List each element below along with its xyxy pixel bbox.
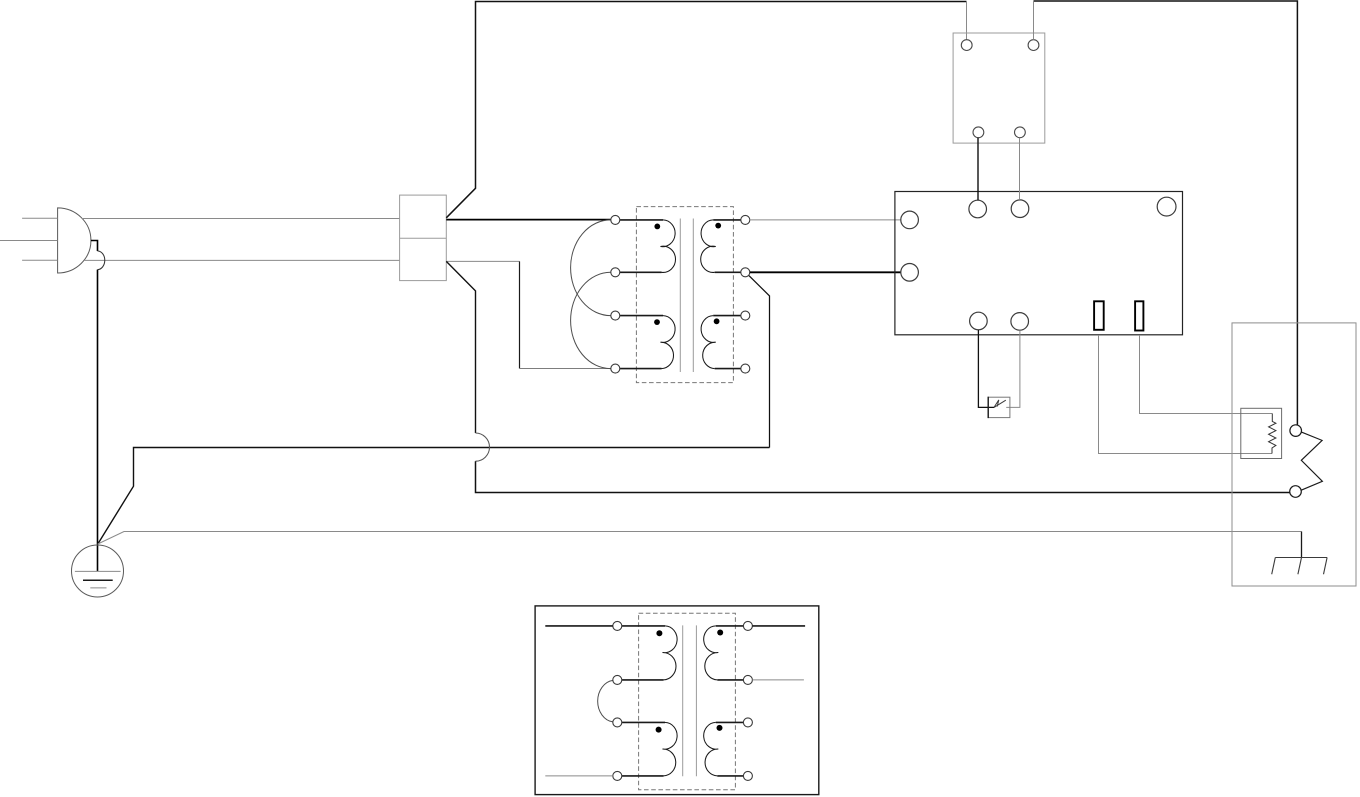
transformer T1 xyxy=(571,207,750,383)
wire thermostat right loop to relay xyxy=(1034,1,1298,425)
plug prong line bottom xyxy=(22,259,58,261)
T2 terminal circles right xyxy=(743,621,752,780)
T1 core lines xyxy=(679,219,681,373)
T2 winding right top xyxy=(704,626,744,680)
board pin connector 2 xyxy=(1135,301,1143,330)
T2 polarity dots xyxy=(656,630,662,636)
wire T1 sec2 to neutral bus xyxy=(749,276,770,448)
T1 winding 1-2 (left top) xyxy=(620,220,676,273)
board pin connector 1 xyxy=(1094,301,1104,330)
T2 stub wire right top xyxy=(752,625,805,627)
relay contact blade (zigzag) xyxy=(1301,432,1323,491)
relay / heater unit box xyxy=(1232,323,1356,586)
relay coil resistor xyxy=(1269,414,1276,454)
control board xyxy=(895,192,1183,335)
fuse block F1 xyxy=(400,195,447,281)
T1 terminal circles right xyxy=(741,215,750,373)
wire fuse up to top loop to thermostat xyxy=(446,2,966,218)
plug prong line top xyxy=(22,217,58,219)
wire thermostat top right gray stub xyxy=(1033,1,1035,40)
T2 stub wire left top xyxy=(545,625,613,627)
S1 wire from board right bottom circle xyxy=(1006,330,1020,407)
T1 jumper arc terminal1 to terminal3 xyxy=(571,220,611,316)
chassis ground symbol xyxy=(1272,532,1327,575)
limit switch S1 xyxy=(978,330,1020,418)
plug prong line middle xyxy=(0,240,58,242)
T1 terminal circles left xyxy=(611,215,620,373)
wire T1 sec2 to board xyxy=(750,271,901,273)
thermostat outline xyxy=(953,33,1045,143)
transformer T2 xyxy=(598,613,753,789)
wire plug hot to fuse xyxy=(82,218,400,220)
T1 jumper arc terminal2 to terminal4 xyxy=(571,272,611,368)
wire T1 sec1 to board xyxy=(750,219,901,221)
wire plug neutral to fuse xyxy=(84,259,400,261)
T1 winding secondary top (right) xyxy=(701,220,741,273)
wire thermostat to board terminal (right, gray) xyxy=(1019,138,1021,200)
T2 dashed enclosure xyxy=(639,613,736,789)
T2 winding right bottom xyxy=(704,722,744,776)
wire fuse to transformer primary 1 xyxy=(446,219,611,221)
board outline xyxy=(895,192,1183,335)
bottom spare box xyxy=(535,606,819,795)
relay coil box xyxy=(1241,408,1282,458)
T2 jumper arc terminal2 to terminal3 xyxy=(598,680,613,722)
wire fuse to transformer primary 4 (jog) xyxy=(446,261,611,368)
T1 winding secondary bottom (right) xyxy=(701,316,741,369)
wire ground junction to chassis ground xyxy=(98,532,1302,545)
T2 winding 1-2 (left top) xyxy=(622,626,677,680)
T1 polarity dots xyxy=(654,224,660,230)
wire thermostat to board terminal (left, black) xyxy=(977,138,979,201)
S1 box xyxy=(988,397,1010,417)
T1 winding 3-4 (left bottom) xyxy=(620,316,675,369)
wire ground junction to neutral bus xyxy=(98,448,770,545)
board terminal circles xyxy=(901,197,1176,330)
thermostat terminals xyxy=(961,40,1039,138)
wire top loop drop to thermostat xyxy=(966,2,968,40)
T2 core lines xyxy=(682,625,684,776)
AC plug P1 xyxy=(58,208,91,273)
wire plug ground down (with hop) xyxy=(91,241,98,252)
wire board pin2 to relay coil top xyxy=(1140,335,1273,414)
S1 switch blade xyxy=(994,400,1006,407)
T1 dashed enclosure xyxy=(636,207,733,383)
relay contact terminal bottom xyxy=(1290,486,1302,498)
thermostat xyxy=(953,33,1045,143)
T2 stub wire right second xyxy=(752,679,804,681)
S1 wire from board left bottom circle xyxy=(978,330,994,408)
wire fuse to relay contact (long bottom run with hop) xyxy=(446,261,475,433)
relay contact terminal top xyxy=(1290,425,1302,437)
T2 winding 3-4 (left bottom) xyxy=(622,722,677,776)
T2 stub wire left bottom xyxy=(545,775,613,777)
S1 blade arrow xyxy=(994,400,999,408)
wire board pin1 to relay coil bottom xyxy=(1099,335,1273,454)
earth ground symbol xyxy=(72,545,124,597)
T2 terminal circles left xyxy=(613,621,622,780)
